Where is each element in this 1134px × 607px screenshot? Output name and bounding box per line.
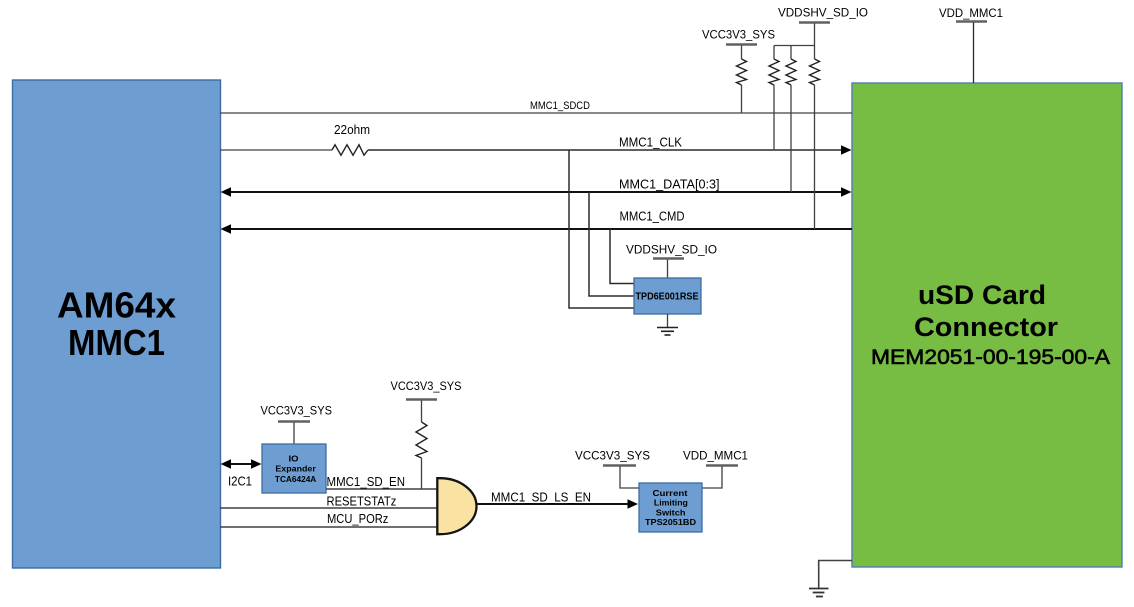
- svg-text:AM64x: AM64x: [57, 285, 176, 326]
- svg-text:Current: Current: [653, 488, 688, 498]
- power VDDSHV_SD_IO rail top: [774, 6, 868, 59]
- svg-text:VDD_MMC1: VDD_MMC1: [683, 449, 748, 463]
- wire RESETSTATz: [220, 494, 437, 509]
- block U1 AM64x MMC1: [13, 80, 221, 568]
- wire MMC1_CLK: [220, 135, 852, 155]
- svg-text:Connector: Connector: [914, 312, 1059, 342]
- power VDD_MMC1 at current limiting switch: [683, 449, 748, 489]
- resistor R5 pull-up on MMC1_CMD: [810, 59, 820, 229]
- block U4 Current Limiting Switch TPS2051BD: [639, 483, 702, 532]
- block U2 TPD6E001RSE ESD protection: [634, 278, 701, 314]
- wire MMC1_CMD stub to TPD6E001RSE: [610, 229, 634, 284]
- svg-text:VDDSHV_SD_IO: VDDSHV_SD_IO: [778, 6, 868, 20]
- svg-text:MMC1_CLK: MMC1_CLK: [619, 135, 682, 150]
- ground at uSD connector: [809, 561, 852, 597]
- svg-text:VCC3V3_SYS: VCC3V3_SYS: [391, 379, 462, 393]
- svg-text:uSD Card: uSD Card: [918, 280, 1046, 310]
- svg-text:RESETSTATz: RESETSTATz: [327, 494, 397, 509]
- svg-text:MMC1_CMD: MMC1_CMD: [620, 209, 685, 224]
- power VDDSHV_SD_IO at TPD6E001RSE: [626, 243, 717, 279]
- gate G1 AND (enable combiner): [437, 478, 476, 534]
- power VCC3V3_SYS rail top (pull-up for MMC1_SDCD): [702, 28, 775, 60]
- svg-text:MMC1_SD_LS_EN: MMC1_SD_LS_EN: [491, 490, 591, 505]
- wire MCU_PORz: [220, 511, 437, 527]
- svg-text:MCU_PORz: MCU_PORz: [327, 511, 388, 526]
- svg-text:TPS2051BD: TPS2051BD: [645, 517, 696, 527]
- svg-text:VCC3V3_SYS: VCC3V3_SYS: [575, 449, 650, 463]
- svg-text:22ohm: 22ohm: [334, 122, 370, 137]
- svg-text:TPD6E001RSE: TPD6E001RSE: [636, 291, 699, 303]
- block J1 uSD Card Connector MEM2051-00-195-00-A: [852, 83, 1122, 567]
- resistor R2 pull-up on MMC1_SDCD: [737, 59, 747, 113]
- ground at TPD6E001RSE: [657, 314, 678, 335]
- svg-text:MEM2051-00-195-00-A: MEM2051-00-195-00-A: [871, 346, 1110, 369]
- power VCC3V3_SYS pull-up at gate: [391, 379, 462, 422]
- resistor R4 pull-up on MMC1_DATA: [786, 59, 796, 192]
- svg-text:MMC1_SD_EN: MMC1_SD_EN: [327, 474, 406, 489]
- svg-text:Expander: Expander: [275, 464, 316, 474]
- svg-text:Switch: Switch: [656, 507, 686, 517]
- svg-text:MMC1_DATA[0:3]: MMC1_DATA[0:3]: [619, 177, 720, 192]
- svg-text:VCC3V3_SYS: VCC3V3_SYS: [702, 28, 775, 42]
- wire MMC1_DATA stub to TPD6E001RSE: [589, 192, 634, 296]
- power VCC3V3_SYS at IO expander: [261, 404, 333, 445]
- svg-text:MMC1_SDCD: MMC1_SDCD: [530, 100, 590, 112]
- wire MMC1_CLK stub to TPD6E001RSE: [569, 150, 634, 308]
- wire MMC1_CMD: [221, 209, 853, 234]
- svg-text:VDD_MMC1: VDD_MMC1: [939, 6, 1003, 20]
- svg-text:VDDSHV_SD_IO: VDDSHV_SD_IO: [626, 243, 717, 257]
- svg-text:Limiting: Limiting: [654, 498, 688, 508]
- svg-text:VCC3V3_SYS: VCC3V3_SYS: [261, 404, 333, 418]
- svg-text:MMC1: MMC1: [68, 322, 165, 363]
- resistor R6 pull-up on MMC1_SD_EN: [416, 422, 427, 489]
- wire MMC1_SDCD: [220, 100, 852, 113]
- svg-text:IO: IO: [289, 454, 299, 464]
- wire MMC1_SD_EN: [326, 474, 437, 489]
- power VDD_MMC1 rail top: [939, 6, 1003, 83]
- resistor R3 pull-up on MMC1_CLK: [769, 59, 779, 150]
- resistor R1 22ohm series on MMC1_CLK: [332, 122, 370, 155]
- svg-text:TCA6424A: TCA6424A: [275, 474, 316, 484]
- wire MMC1_DATA[0:3] bidirectional: [221, 177, 852, 197]
- wire I2C1 bidirectional: [221, 459, 262, 488]
- wire MMC1_SD_LS_EN gate output: [476, 490, 638, 509]
- power VCC3V3_SYS at current limiting switch: [575, 449, 650, 489]
- svg-text:I2C1: I2C1: [228, 474, 252, 489]
- block U3 IO Expander TCA6424A: [262, 444, 326, 493]
